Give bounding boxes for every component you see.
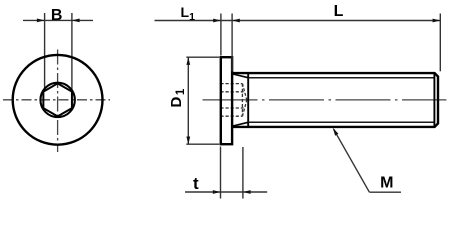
- arrow D1 top: [186, 57, 190, 65]
- socket hidden cone top: [242, 84, 246, 100]
- hex socket: [43, 83, 72, 116]
- arrow B right: [72, 19, 80, 23]
- extension line B left: [44, 13, 46, 92]
- dimension line L1 and L: [155, 20, 441, 22]
- dimension line t: [185, 191, 267, 193]
- socket hidden cone bottom: [242, 100, 246, 116]
- shank outline: [232, 73, 438, 127]
- leader arrow M: [333, 128, 339, 136]
- extension line B right: [71, 13, 73, 91]
- arrow t right: [243, 190, 251, 194]
- leader line M underline: [369, 191, 401, 193]
- centerline horizontal (front view): [3, 99, 110, 101]
- socket chamfer circle: [40, 83, 74, 117]
- centerline vertical (front view): [57, 50, 59, 153]
- socket hidden line top outer: [220, 83, 242, 85]
- arrow L right: [433, 19, 441, 23]
- socket hidden line bottom inner: [220, 107, 243, 109]
- socket hidden line bottom outer: [220, 115, 242, 117]
- arrow D1 bottom: [186, 137, 190, 145]
- head side rectangle: [221, 57, 232, 144]
- thread minor dia bottom: [248, 121, 434, 123]
- thread start line: [247, 73, 249, 127]
- svg-text:L: L: [334, 3, 344, 20]
- socket hidden depth line: [241, 84, 243, 117]
- thread runout bottom: [233, 122, 248, 126]
- extension line D1 top: [186, 56, 219, 58]
- extension line t left: [220, 147, 222, 199]
- dimension line D1: [187, 57, 189, 144]
- extension line t right: [242, 147, 244, 199]
- centerline axis (side view): [203, 99, 447, 101]
- point chamfer line: [433, 73, 435, 127]
- dimension line B: [23, 19, 93, 21]
- arrow L1 left: [213, 19, 221, 23]
- head outer circle: [13, 55, 103, 145]
- svg-text:t: t: [193, 174, 199, 193]
- thread minor dia top: [248, 77, 434, 79]
- extension line L1 left: [220, 14, 222, 56]
- extension line D1 bottom: [186, 143, 219, 145]
- svg-text:M: M: [380, 175, 393, 192]
- extension line L right: [439, 14, 441, 72]
- socket hidden line top inner: [220, 91, 243, 93]
- arrow B left: [37, 19, 45, 23]
- thread runout top: [233, 74, 248, 78]
- svg-text:B: B: [51, 7, 63, 24]
- extension line under-head (L1 right / L left): [231, 14, 233, 72]
- arrow t left: [213, 190, 221, 194]
- leader line M slant: [334, 129, 370, 192]
- arrow L left: [232, 19, 240, 23]
